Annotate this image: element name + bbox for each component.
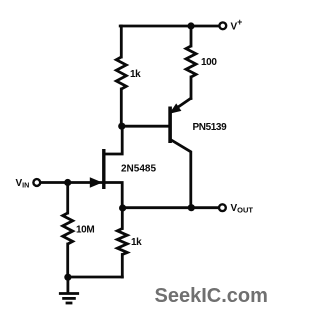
svg-text:VOUT: VOUT [231,203,254,215]
svg-text:100: 100 [201,57,217,68]
svg-text:VIN: VIN [16,178,30,190]
svg-text:SeekIC.com: SeekIC.com [155,285,268,307]
svg-text:PN5139: PN5139 [193,122,228,133]
svg-text:1k: 1k [130,69,141,80]
svg-text:2N5485: 2N5485 [121,164,156,175]
svg-text:10M: 10M [76,225,94,236]
svg-text:V+: V+ [231,17,243,32]
svg-text:1k: 1k [131,237,142,248]
